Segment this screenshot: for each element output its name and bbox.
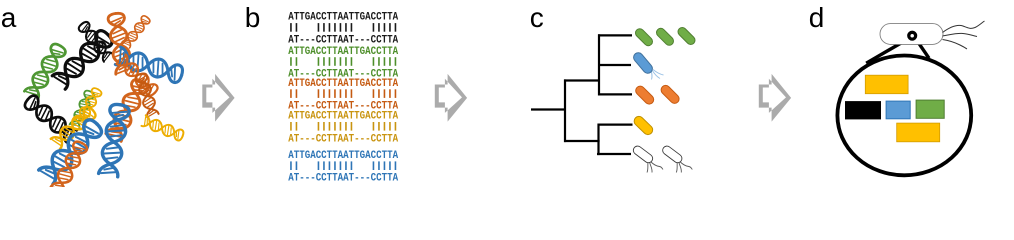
gene block green bbox=[916, 100, 944, 118]
alignment match bars bbox=[291, 23, 396, 32]
arrow 2 bbox=[435, 74, 467, 122]
svg-text:ATTGACCTTAATTGACCTTA: ATTGACCTTAATTGACCTTA bbox=[288, 78, 398, 90]
orange bacterium 1 bbox=[634, 84, 656, 106]
helix orange C bbox=[135, 72, 159, 117]
lower clade branch bbox=[564, 140, 600, 142]
root branch bbox=[531, 108, 565, 110]
white bacterium 1 flagella bbox=[647, 162, 663, 173]
blue tip branch bbox=[598, 64, 631, 66]
helix yellow A2 bbox=[51, 105, 98, 149]
green bacterium 1 bbox=[634, 27, 655, 48]
svg-text:AT---CCTTAAT---CCTTA: AT---CCTTAAT---CCTTA bbox=[288, 34, 398, 46]
svg-text:a: a bbox=[1, 2, 17, 33]
green bacterium 3 bbox=[676, 26, 697, 47]
upper clade vertical bbox=[598, 34, 600, 95]
major vertical bbox=[564, 79, 566, 142]
magnifier anchor ring bbox=[909, 32, 916, 39]
white bacterium 2 flagella bbox=[676, 162, 692, 173]
lower clade vertical bbox=[597, 124, 599, 156]
svg-text:b: b bbox=[245, 2, 261, 33]
gene block yellow 2 bbox=[897, 123, 940, 142]
svg-text:ATTGACCTTAATTGACCTTA: ATTGACCTTAATTGACCTTA bbox=[288, 46, 398, 58]
upper clade branch bbox=[564, 79, 600, 81]
helix orange F bbox=[122, 14, 151, 47]
gene block black bbox=[845, 101, 881, 119]
helix green B bbox=[70, 89, 96, 128]
alignment match bars bbox=[291, 161, 396, 170]
arrow 1 bbox=[202, 74, 234, 122]
svg-text:d: d bbox=[809, 2, 825, 33]
orange bacterium 2 bbox=[659, 84, 681, 106]
svg-text:ATTGACCTTAATTGACCTTA: ATTGACCTTAATTGACCTTA bbox=[288, 111, 398, 123]
helix black B bbox=[77, 20, 113, 61]
svg-text:AT---CCTTAAT---CCTTA: AT---CCTTAAT---CCTTA bbox=[288, 133, 398, 145]
helix black A bbox=[52, 28, 114, 89]
bacterium body bbox=[880, 24, 943, 45]
helix yellow A1 bbox=[74, 87, 102, 126]
alignment match bars bbox=[291, 57, 396, 66]
svg-text:ATTGACCTTAATTGACCTTA: ATTGACCTTAATTGACCTTA bbox=[288, 12, 398, 24]
yellow bacterium bbox=[632, 114, 654, 136]
bacterium flagella bbox=[943, 21, 985, 49]
helix blue B bbox=[39, 117, 104, 184]
helix orange E bbox=[106, 77, 150, 141]
alignment match bars bbox=[291, 122, 396, 131]
white bacterium 2 bbox=[661, 144, 684, 164]
helix blue A bbox=[115, 47, 184, 84]
gene block yellow 1 bbox=[865, 75, 908, 94]
blue bacterium bbox=[632, 51, 655, 75]
helix orange B bbox=[117, 55, 160, 98]
white bacterium 1 bbox=[632, 144, 655, 164]
gene block blue bbox=[886, 101, 910, 119]
helix orange D bbox=[51, 140, 89, 194]
magnifier cone right bbox=[915, 38, 929, 58]
helix orange A bbox=[107, 12, 132, 74]
helix black C bbox=[23, 94, 77, 143]
green tip branch bbox=[598, 34, 632, 36]
magnifier circle bbox=[837, 56, 971, 176]
svg-text:c: c bbox=[530, 2, 544, 33]
helix yellow B bbox=[142, 115, 185, 141]
yellow tip branch bbox=[598, 123, 633, 125]
arrow 3 bbox=[759, 74, 791, 122]
svg-text:ATTGACCTTAATTGACCTTA: ATTGACCTTAATTGACCTTA bbox=[288, 150, 398, 162]
blue bacterium flagella bbox=[651, 70, 664, 80]
helix green A bbox=[24, 42, 67, 99]
green bacterium 2 bbox=[655, 27, 676, 48]
orange tip branch bbox=[598, 93, 632, 95]
alignment match bars bbox=[291, 89, 396, 98]
helix blue C bbox=[99, 103, 130, 177]
svg-text:AT---CCTTAAT---CCTTA: AT---CCTTAAT---CCTTA bbox=[288, 173, 398, 185]
white tip branch bbox=[597, 153, 631, 155]
magnifier cone left bbox=[866, 39, 909, 64]
